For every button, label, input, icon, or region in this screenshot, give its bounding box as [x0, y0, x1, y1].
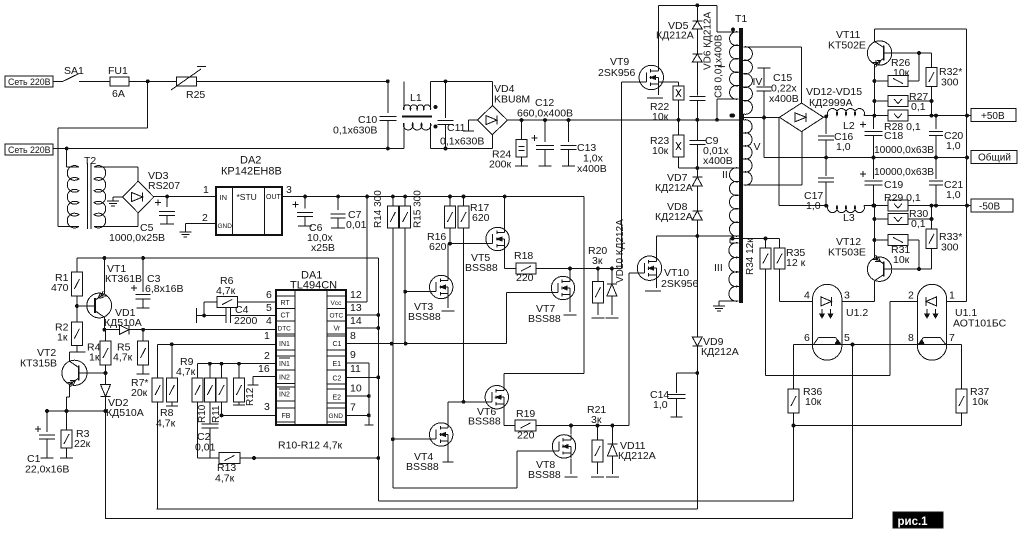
- transistor VT3 BSS88: [405, 244, 455, 323]
- diode VD8 КД212А: [655, 186, 702, 223]
- wire: opto output down line: [105, 345, 853, 519]
- capacitor C20 1,0: [929, 116, 963, 158]
- svg-text:6: 6: [266, 289, 272, 301]
- svg-text:BSS88: BSS88: [465, 262, 498, 274]
- transistor VT2 КТ315В: [20, 347, 106, 411]
- svg-text:KBU8M: KBU8M: [494, 94, 530, 106]
- node: mains input L (Сеть 220В): [5, 76, 60, 87]
- resistor R32* 300: [926, 53, 962, 118]
- svg-text:22,0х16В: 22,0х16В: [25, 464, 69, 476]
- capacitor C21 1,0: [929, 158, 963, 208]
- svg-text:200к: 200к: [489, 159, 512, 171]
- wire: T1 winding II top: [697, 167, 739, 169]
- svg-text:2: 2: [202, 212, 208, 224]
- svg-text:22к: 22к: [74, 438, 91, 450]
- wire: DA1 pin2 line: [198, 350, 276, 378]
- svg-text:OUT: OUT: [266, 194, 282, 201]
- node: +50В output: [967, 109, 1016, 122]
- svg-text:SA1: SA1: [64, 65, 84, 77]
- svg-text:I: I: [717, 65, 728, 68]
- svg-text:IN: IN: [220, 193, 228, 202]
- transistor VT1 КТ361В: [75, 258, 142, 332]
- svg-text:х400В: х400В: [769, 93, 799, 105]
- inductor L3: [828, 206, 887, 224]
- svg-text:DTC: DTC: [278, 326, 292, 333]
- capacitor C18 10000,0x63В: [860, 116, 934, 158]
- svg-text:RS207: RS207: [148, 180, 180, 192]
- svg-text:Vr: Vr: [334, 326, 341, 333]
- svg-text:FB: FB: [282, 413, 291, 420]
- capacitor C16 1,0: [818, 117, 853, 160]
- capacitor C15 0,22x400В: [757, 68, 799, 118]
- wire: VT4 drain to VT6 gate: [448, 400, 486, 404]
- svg-text:3: 3: [286, 184, 292, 196]
- svg-text:BSS88: BSS88: [408, 311, 441, 323]
- wire: VT9 gate drive from R18 line: [622, 82, 641, 268]
- svg-text:R29 0,1: R29 0,1: [884, 192, 921, 204]
- node: Общий output: [971, 151, 1017, 164]
- wire: phase jog to lower rail: [58, 79, 149, 226]
- svg-text:4,7к: 4,7к: [113, 352, 133, 364]
- svg-text:4,7к: 4,7к: [216, 285, 236, 297]
- node: -50В output: [967, 199, 1013, 212]
- svg-text:КД212А: КД212А: [655, 211, 693, 223]
- resistor R37 10к: [956, 345, 989, 426]
- svg-text:6,8х16В: 6,8х16В: [145, 283, 184, 295]
- resistor R18 220: [514, 250, 622, 284]
- capacitor C6 10,0x25В: [292, 197, 335, 255]
- diode VD9 КД212А: [692, 236, 738, 509]
- inductor L2: [828, 109, 887, 132]
- svg-text:660,0х400В: 660,0х400В: [517, 108, 573, 120]
- svg-text:1к: 1к: [57, 332, 68, 344]
- transformer T2: [58, 149, 138, 230]
- wire: DA1 pin10 E2: [346, 383, 369, 397]
- svg-text:470: 470: [51, 282, 69, 294]
- resistor R33* 300: [926, 206, 962, 269]
- svg-text:20к: 20к: [131, 387, 148, 399]
- wire: VT12 emitter to U1.2 pin3: [842, 300, 875, 302]
- resistor R28 0,1: [874, 110, 968, 133]
- capacitor C3 6,8x16В: [131, 258, 184, 308]
- resistor R15 300: [400, 190, 424, 344]
- svg-text:+50В: +50В: [981, 111, 1005, 122]
- resistor R6 4,7к: [202, 275, 276, 317]
- ground at VD3: [107, 197, 123, 206]
- bridge rectifier VD3 RS207: [123, 170, 181, 213]
- svg-text:C2: C2: [333, 376, 342, 383]
- svg-text:9: 9: [350, 349, 356, 361]
- resistor R10: [197, 364, 215, 423]
- transistor VT9 2SK956: [598, 5, 664, 98]
- resistor R7* 20к: [131, 377, 163, 509]
- svg-text:10к: 10к: [893, 67, 910, 79]
- resistor R13 4,7к: [198, 453, 381, 485]
- svg-text:КТ315В: КТ315В: [20, 358, 57, 370]
- svg-text:16: 16: [258, 363, 270, 375]
- transformer T1 core: [735, 13, 747, 303]
- svg-text:10к: 10к: [972, 396, 989, 408]
- svg-text:х25В: х25В: [311, 242, 335, 254]
- svg-text:IV: IV: [753, 76, 763, 88]
- capacitor C13 1,0x400В: [561, 120, 607, 175]
- optocoupler U1.2: [804, 284, 868, 360]
- wire: R36 R37 common: [792, 424, 962, 428]
- resistor R5 4,7к: [113, 330, 150, 374]
- T1 winding II: [722, 168, 739, 237]
- resistor R21 3к: [587, 404, 606, 477]
- svg-text:2: 2: [264, 350, 270, 362]
- svg-text:1000,0х25В: 1000,0х25В: [109, 232, 165, 244]
- capacitor C2 0,01: [195, 422, 218, 458]
- svg-text:220: 220: [516, 272, 534, 284]
- transistor VT12 KT503E: [828, 206, 932, 302]
- label R10-R12: [278, 440, 343, 452]
- svg-text:0,01: 0,01: [195, 442, 216, 454]
- svg-text:III: III: [714, 262, 723, 274]
- svg-text:КТ361В: КТ361В: [105, 273, 142, 285]
- resistor R4 1к: [87, 330, 111, 365]
- svg-text:KT502E: KT502E: [828, 40, 866, 52]
- svg-text:RT: RT: [281, 300, 291, 307]
- ground at T1 winding III: [713, 304, 725, 311]
- capacitor C1 22,0x16В: [25, 411, 69, 476]
- diode VD2 КД510А: [101, 365, 144, 419]
- svg-text:300: 300: [941, 242, 959, 254]
- resistor R12: [233, 364, 256, 406]
- T1 winding V (secondary): [744, 120, 761, 186]
- transistor VT10 2SK956: [637, 256, 698, 291]
- svg-text:CT: CT: [281, 313, 291, 320]
- capacitor C9 0,01x400В: [689, 120, 732, 170]
- svg-text:E1: E1: [333, 361, 342, 368]
- diode VD5 КД212А: [656, 5, 702, 41]
- regulator DA2 КР142ЕН8В: [216, 155, 282, 236]
- svg-text:IN2: IN2: [279, 392, 290, 399]
- svg-text:R25: R25: [186, 89, 205, 101]
- resistor R11: [211, 364, 227, 423]
- transistor VT6 BSS88: [468, 374, 584, 428]
- svg-text:IN2: IN2: [279, 375, 290, 382]
- resistor R34 12к: [745, 238, 890, 376]
- wire: VD9 bottom line: [157, 508, 698, 510]
- svg-text:4: 4: [266, 315, 272, 327]
- svg-text:13: 13: [350, 302, 362, 314]
- wire: secondary center tap: [744, 114, 780, 120]
- svg-text:T2: T2: [84, 155, 96, 167]
- svg-text:рис.1: рис.1: [898, 516, 929, 528]
- svg-text:10: 10: [350, 383, 362, 395]
- capacitor C12 660,0x400В: [517, 97, 573, 166]
- label DA1: [290, 270, 337, 292]
- svg-text:R10: R10: [197, 404, 208, 423]
- resistor R24 200к: [489, 120, 528, 170]
- svg-text:12 к: 12 к: [786, 257, 806, 269]
- resistor R17 620: [458, 197, 490, 402]
- svg-text:1к: 1к: [89, 352, 100, 364]
- wire: top right frame: [874, 29, 966, 301]
- svg-text:C18: C18: [884, 130, 903, 142]
- svg-text:1: 1: [949, 290, 955, 302]
- wire: DA2 pin2 GND: [179, 212, 216, 237]
- svg-text:BSS88: BSS88: [406, 461, 439, 473]
- svg-text:КД212А: КД212А: [655, 182, 693, 194]
- resistor R35 12к: [774, 239, 813, 302]
- svg-text:10к: 10к: [805, 396, 822, 408]
- svg-text:T1: T1: [735, 13, 747, 25]
- capacitor C14 1,0: [650, 373, 697, 417]
- svg-text:GND: GND: [329, 413, 344, 420]
- svg-text:3: 3: [844, 290, 850, 302]
- wire: DA1 pin12 Vcc: [346, 197, 367, 303]
- wire: DA1 pin14 Vr: [346, 315, 380, 330]
- svg-text:1: 1: [264, 330, 270, 342]
- svg-text:8: 8: [350, 330, 356, 342]
- wire: +50V rail: [887, 114, 938, 118]
- svg-text:КД212А: КД212А: [701, 346, 739, 358]
- svg-text:300: 300: [941, 77, 959, 89]
- svg-text:E2: E2: [333, 395, 342, 402]
- capacitor C5 1000,0x25В: [109, 197, 175, 245]
- svg-text:620: 620: [429, 241, 447, 253]
- transistor VT4 BSS88: [393, 402, 454, 473]
- wire: T1 IV top to bridge: [747, 47, 802, 103]
- svg-text:4,7к: 4,7к: [156, 418, 176, 430]
- svg-text:КР142ЕН8В: КР142ЕН8В: [221, 166, 282, 178]
- svg-text:OTC: OTC: [330, 313, 344, 320]
- svg-text:1,0: 1,0: [806, 200, 821, 212]
- svg-text:3к: 3к: [592, 255, 603, 267]
- wire: top line to T1 primary: [658, 4, 730, 33]
- label рис.1: [893, 512, 943, 528]
- transistor VT8 BSS88: [528, 426, 578, 482]
- svg-text:BSS88: BSS88: [468, 416, 501, 428]
- svg-text:2SK956: 2SK956: [661, 278, 699, 290]
- svg-text:Vcc: Vcc: [331, 300, 343, 307]
- wire: R7 bottom to VD9 line: [157, 508, 158, 510]
- svg-text:BSS88: BSS88: [528, 313, 561, 325]
- resistor R31 10к: [873, 235, 921, 271]
- wire: bridge minus to L3: [779, 117, 828, 205]
- svg-text:C11: C11: [447, 122, 466, 134]
- svg-text:1: 1: [203, 184, 209, 196]
- diode VD6 КД212А: [692, 11, 713, 70]
- wire: DA1 pin9 E1: [346, 349, 373, 425]
- wire: T1 V bottom to bridge: [744, 132, 803, 185]
- svg-text:C1: C1: [333, 341, 342, 348]
- wire: VT2 emitter node: [45, 409, 105, 413]
- svg-text:GND: GND: [218, 223, 233, 230]
- svg-text:7: 7: [949, 332, 955, 344]
- svg-text:4,7к: 4,7к: [176, 366, 196, 378]
- resistor R36 10к: [788, 345, 822, 426]
- resistor R16 620: [427, 197, 456, 254]
- thermistor R25: [171, 67, 388, 102]
- svg-text:BSS88: BSS88: [528, 469, 561, 481]
- T1 winding IV (secondary): [731, 47, 762, 118]
- svg-text:R10-R12 4,7к: R10-R12 4,7к: [278, 440, 343, 452]
- svg-text:6: 6: [804, 332, 810, 344]
- svg-text:R34 12к: R34 12к: [745, 238, 756, 275]
- resistor R3 22к: [60, 411, 91, 458]
- svg-text:L1: L1: [410, 92, 422, 104]
- svg-text:II: II: [722, 169, 728, 181]
- diode VD1 КД510А: [104, 307, 276, 334]
- svg-text:КД510А: КД510А: [106, 407, 144, 419]
- wire: -50V rail: [873, 204, 969, 208]
- resistor R19 220: [515, 408, 629, 442]
- svg-text:1,0: 1,0: [836, 141, 851, 153]
- bridge rectifier VD4 KBU8M: [477, 81, 530, 148]
- svg-text:5: 5: [844, 332, 850, 344]
- svg-text:КД212А: КД212А: [656, 30, 694, 42]
- svg-text:0,01: 0,01: [346, 219, 367, 231]
- svg-text:C19: C19: [884, 179, 903, 191]
- T1 winding III: [714, 239, 739, 305]
- svg-text:R14 300: R14 300: [373, 190, 384, 228]
- svg-text:2SK956: 2SK956: [598, 67, 636, 79]
- wire: U1.1 pin1 to right frame: [947, 300, 967, 302]
- resistor R26 10к: [874, 53, 919, 87]
- svg-text:Сеть 220В: Сеть 220В: [8, 77, 51, 87]
- transistor VT5 BSS88: [450, 197, 516, 275]
- svg-text:7: 7: [350, 402, 356, 414]
- svg-text:VD6 КД212А: VD6 КД212А: [703, 11, 714, 70]
- wire: VD3 + output to DA2: [154, 184, 216, 198]
- resistor R8 4,7к: [156, 344, 178, 429]
- node: mains input N (Сеть 220В): [5, 144, 404, 155]
- svg-text:R19: R19: [516, 408, 535, 420]
- svg-text:U1.2: U1.2: [846, 307, 868, 319]
- resistor R14 300: [373, 190, 398, 441]
- wire: T1 winding II bottom / VT10 drain: [657, 220, 740, 256]
- bridge rectifier VD12-VD15 КД2999А: [780, 86, 863, 132]
- optocoupler U1.1 АОТ101БС: [908, 284, 1007, 360]
- svg-text:11: 11: [350, 363, 361, 375]
- svg-text:1,0: 1,0: [946, 140, 961, 152]
- resistor R2 1к: [55, 322, 86, 353]
- fuse FU1: [108, 65, 177, 100]
- wire: bridge plus to L2: [824, 115, 829, 119]
- wire: optocoupler emitters line: [794, 343, 962, 347]
- T1 winding I (primary): [715, 28, 738, 122]
- wire: DA1 pin13 OTC: [346, 302, 380, 317]
- capacitor C4 2200: [197, 302, 277, 327]
- svg-text:KT503E: KT503E: [828, 247, 866, 259]
- wire: +12V rail from DA2 pin3: [282, 184, 584, 374]
- svg-text:4: 4: [804, 290, 810, 302]
- capacitor C7 0,01: [331, 197, 367, 232]
- svg-text:12: 12: [350, 289, 362, 301]
- svg-text:IN1: IN1: [279, 361, 290, 368]
- svg-text:0,1х630В: 0,1х630В: [440, 136, 484, 148]
- wire: DA1 pin11 to R13 line: [346, 363, 380, 379]
- svg-text:х400В: х400В: [577, 163, 607, 175]
- svg-text:-50В: -50В: [979, 201, 1000, 212]
- switch SA1: [60, 65, 110, 81]
- transistor VT11 KT502E: [828, 29, 932, 118]
- svg-text:Общий: Общий: [978, 152, 1011, 164]
- diode VD10 КД212А: [605, 219, 626, 318]
- wire: DA1 pin16 stub: [248, 363, 277, 385]
- wire: VT10 gate drive from R19 line: [629, 273, 639, 426]
- wire: R13 line down right: [377, 458, 379, 501]
- svg-text:10к: 10к: [652, 111, 669, 123]
- svg-text:R15 300: R15 300: [413, 190, 424, 228]
- wire: DA1 pin1 line: [158, 330, 276, 378]
- svg-text:Сеть 220В: Сеть 220В: [8, 145, 51, 155]
- capacitor C19 10000,0x63В: [860, 158, 934, 208]
- capacitor C10 0,1x630В: [333, 79, 396, 150]
- wire: DA1 pin8 C1 line: [346, 293, 507, 346]
- resistor R23 10к: [650, 120, 697, 168]
- resistor R22 10к: [650, 82, 684, 123]
- svg-text:10000,0х63В: 10000,0х63В: [874, 167, 934, 178]
- transistor VT7 BSS88: [507, 269, 577, 326]
- resistor R30 0,1: [873, 208, 932, 230]
- svg-text:V: V: [754, 141, 761, 153]
- wire: DA1 pin4 DTC: [266, 315, 272, 327]
- wire: VT4 VT8 gate loop: [393, 439, 553, 488]
- svg-text:5: 5: [266, 302, 272, 314]
- svg-text:х400В: х400В: [703, 155, 733, 167]
- resistor R9 4,7к: [176, 356, 203, 458]
- wire: +310V DC rail: [507, 114, 739, 122]
- wire: DA1 pin3 FB line: [220, 401, 276, 417]
- svg-text:0,1: 0,1: [911, 101, 926, 113]
- wire: aux rail: [77, 256, 378, 458]
- wire: VD2 node down to bottom line: [105, 411, 107, 519]
- svg-text:3к: 3к: [591, 414, 602, 426]
- wire: common rail (Общий): [764, 118, 969, 160]
- svg-text:6A: 6A: [112, 88, 125, 100]
- svg-text:IN1: IN1: [279, 341, 290, 348]
- resistor R1 470: [51, 258, 82, 322]
- wire: DA1 pin7 GND: [346, 402, 369, 416]
- svg-text:0,1х630В: 0,1х630В: [333, 125, 377, 137]
- wire: U1.1 pin2 to R34: [890, 300, 917, 302]
- svg-text:14: 14: [350, 315, 362, 327]
- svg-text:1,0: 1,0: [653, 399, 668, 411]
- svg-text:620: 620: [472, 212, 490, 224]
- svg-text:VD10 КД212А: VD10 КД212А: [615, 219, 626, 283]
- svg-text:L3: L3: [843, 212, 855, 224]
- diode VD11 КД212А: [606, 426, 656, 478]
- svg-text:АОТ101БС: АОТ101БС: [953, 318, 1007, 330]
- svg-text:1,0: 1,0: [946, 189, 961, 201]
- svg-text:R18: R18: [514, 250, 533, 262]
- IC DA1 TL494CN: [276, 290, 346, 425]
- svg-text:10к: 10к: [893, 254, 910, 266]
- svg-text:*STU: *STU: [237, 192, 257, 202]
- svg-text:3: 3: [264, 401, 270, 413]
- svg-text:КД2999А: КД2999А: [809, 97, 853, 109]
- capacitor C11 0,1x630В: [438, 79, 485, 150]
- svg-text:TL494CN: TL494CN: [290, 280, 337, 292]
- svg-text:КД212А: КД212А: [618, 450, 656, 462]
- capacitor C8 0,01x400В: [689, 34, 724, 120]
- svg-text:2200: 2200: [234, 315, 258, 327]
- svg-text:10000,0х63В: 10000,0х63В: [874, 145, 934, 156]
- resistor R29 0,1: [874, 192, 931, 211]
- wire: T1 III top to R34 R35: [730, 237, 780, 241]
- svg-text:4,7к: 4,7к: [215, 473, 235, 485]
- svg-text:220: 220: [517, 430, 535, 442]
- svg-text:10к: 10к: [652, 145, 669, 157]
- resistor R27 0,1: [874, 91, 931, 113]
- svg-text:КД510А: КД510А: [104, 317, 142, 329]
- inductor L1: [402, 81, 492, 148]
